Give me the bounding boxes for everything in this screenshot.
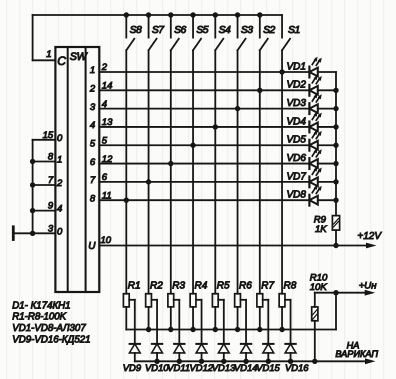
svg-text:VD1-VD8-АЛ307: VD1-VD8-АЛ307 (12, 323, 86, 334)
node: left bus junction y=185 (30, 182, 35, 187)
svg-text:S7: S7 (152, 25, 165, 36)
svg-text:C: C (57, 54, 66, 68)
wire: branch to diode VD14 (240, 300, 246, 344)
wire: +Un line (315, 292, 366, 294)
wire: R6 bottom lead (237, 307, 239, 330)
wire: R10 to varicap bus (314, 321, 316, 362)
wire: IC output row 6 (pin 12) to LED VD6 (99, 163, 309, 165)
svg-text:4: 4 (102, 99, 107, 110)
node: matrix junction row 1 / column S1 (279, 69, 284, 74)
svg-text:+12V: +12V (357, 231, 382, 242)
svg-text:11: 11 (102, 190, 112, 201)
svg-text:VD16: VD16 (285, 362, 309, 373)
wire: branch to diode VD11 (174, 300, 180, 344)
wire: IC output row 8 (pin 11) to LED VD8 (99, 199, 309, 201)
terminal bar (common) (12, 227, 15, 240)
node: matrix junction row 4 / column S4 (213, 124, 218, 129)
wire: R7 bottom lead (259, 307, 261, 330)
switch S3 (235, 12, 253, 50)
wire: IC output row 5 (pin 5) to LED VD5 (99, 144, 309, 146)
wire: pin 1 (C input) up to switch common bus (33, 15, 282, 60)
svg-text:VD13: VD13 (212, 362, 236, 373)
svg-text:4: 4 (57, 204, 62, 215)
svg-text:2: 2 (101, 62, 108, 73)
node: matrix junction row 6 / column S6 (168, 161, 173, 166)
node: R6 on +Un bus (235, 327, 240, 332)
switch S4 (213, 12, 231, 50)
wire: IC output row 2 (pin 14) to LED VD2 (99, 89, 309, 91)
svg-text:8: 8 (48, 152, 54, 163)
svg-text:VD11: VD11 (167, 362, 190, 373)
node: VD10 on varicap bus (154, 359, 159, 364)
svg-text:8: 8 (90, 193, 96, 204)
svg-text:VD15: VD15 (256, 362, 280, 373)
wire: R5 bottom lead (214, 307, 216, 330)
svg-text:ВАРИКАП: ВАРИКАП (335, 349, 378, 359)
node: matrix junction row 7 / column S7 (146, 179, 151, 184)
node: R9 junction on +12V line (333, 243, 338, 248)
wire: IC output row 7 (pin 6) to LED VD7 (99, 181, 309, 183)
resistor R10 (312, 293, 318, 321)
svg-text:R8: R8 (284, 281, 297, 292)
wire: column S4 down to R5 (214, 50, 216, 293)
LED VD4 (309, 113, 336, 132)
node: R7 on +Un bus (257, 327, 262, 332)
node: R2 on +Un bus (146, 327, 151, 332)
diode VD11 (174, 344, 185, 361)
svg-text:5: 5 (90, 138, 96, 149)
switch S6 (168, 12, 186, 50)
svg-text:D1- К174КН1: D1- К174КН1 (12, 300, 70, 311)
wire: IC output row 3 (pin 4) to LED VD3 (99, 108, 309, 110)
node: VD12 on varicap bus (199, 359, 204, 364)
svg-text:2: 2 (56, 178, 63, 189)
svg-text:R1: R1 (128, 281, 141, 292)
svg-text:R7: R7 (261, 281, 274, 292)
svg-text:5: 5 (102, 135, 108, 146)
LED VD6 (309, 150, 336, 169)
diode VD16 (285, 344, 296, 361)
wire: LED cathode bus to R9 (335, 72, 337, 216)
node: R10 on varicap bus (312, 359, 317, 364)
svg-text:VD4: VD4 (287, 116, 307, 127)
wire: R4 bottom lead (192, 307, 194, 330)
node: VD14 on varicap bus (243, 359, 248, 364)
resistor R8 (279, 294, 285, 307)
wire: R8 bottom lead (281, 307, 283, 330)
svg-text:VD9: VD9 (123, 362, 142, 373)
svg-text:12: 12 (102, 154, 113, 165)
svg-text:R3: R3 (172, 281, 185, 292)
svg-text:6: 6 (102, 172, 108, 183)
node: left bus to pin 3 (30, 231, 35, 236)
wire: R1 bottom lead (125, 307, 127, 330)
svg-text:VD2: VD2 (287, 80, 307, 91)
node: VD11 on varicap bus (177, 359, 182, 364)
wire: left input pin 7 (address 2) (33, 184, 56, 186)
svg-text:7: 7 (90, 175, 96, 186)
diode VD14 (241, 344, 252, 361)
svg-text:0: 0 (57, 226, 63, 237)
wire: branch to diode VD16 (285, 300, 291, 344)
svg-text:S2: S2 (263, 25, 275, 36)
svg-text:R1-R8-100K: R1-R8-100K (12, 312, 66, 323)
svg-text:VD14: VD14 (234, 362, 257, 373)
LED VD3 (309, 95, 336, 114)
+Un arrow (365, 290, 376, 296)
LED VD8 (309, 186, 336, 205)
value label: parts list (12, 300, 90, 345)
svg-text:2: 2 (89, 84, 96, 95)
svg-text:4: 4 (90, 120, 95, 131)
node: LED bus junction VD4 (333, 124, 338, 129)
node: matrix junction row 3 / column S3 (235, 106, 240, 111)
svg-text:+Uн: +Uн (359, 281, 378, 292)
svg-text:1: 1 (90, 65, 95, 76)
resistor R4 (190, 294, 196, 307)
wire: IC output row 1 (pin 2) to LED VD1 (99, 71, 309, 73)
svg-text:R6: R6 (239, 281, 252, 292)
op-amp-style IC U1 (D1 K174KN1 switch) body (55, 47, 99, 292)
diode VD12 (196, 344, 207, 361)
LED VD2 (309, 77, 336, 96)
+12V arrow (366, 243, 377, 249)
svg-text:R2: R2 (150, 281, 163, 292)
svg-text:S6: S6 (174, 25, 186, 36)
node: VD15 on varicap bus (266, 359, 271, 364)
svg-text:10: 10 (101, 235, 112, 246)
svg-text:15: 15 (43, 130, 54, 141)
svg-text:0: 0 (57, 133, 63, 144)
svg-text:7: 7 (48, 175, 54, 186)
resistor R3 (168, 294, 174, 307)
switch S8 (124, 12, 142, 50)
wire: R9 to +12V line (335, 230, 337, 245)
svg-text:S5: S5 (196, 25, 208, 36)
node: matrix junction row 8 / column S8 (124, 197, 129, 202)
svg-text:VD7: VD7 (287, 171, 307, 182)
node: VD13 on varicap bus (221, 359, 226, 364)
LED VD1 (309, 58, 336, 77)
wire: branch to diode VD13 (218, 300, 224, 344)
svg-text:VD8: VD8 (287, 190, 307, 201)
svg-text:14: 14 (102, 81, 113, 92)
node: LED bus junction VD5 (333, 143, 338, 148)
resistor R6 (235, 294, 241, 307)
wire: column S2 down to R7 (259, 50, 261, 293)
node: R5 on +Un bus (213, 327, 218, 332)
wire: column S5 down to R4 (192, 50, 194, 293)
wire: column S7 down to R2 (148, 50, 150, 293)
resistor R7 (257, 294, 263, 307)
node: matrix junction row 2 / column S2 (257, 88, 262, 93)
wire: column S8 down to R1 (125, 50, 127, 293)
node: LED bus junction VD7 (333, 179, 338, 184)
resistor R9 (332, 216, 339, 231)
svg-text:VD3: VD3 (287, 98, 307, 109)
svg-text:S8: S8 (130, 25, 142, 36)
svg-text:VD9-VD16-КД521: VD9-VD16-КД521 (12, 334, 90, 345)
wire: left address bus (32, 140, 34, 234)
resistor R2 (146, 294, 152, 307)
wire: varicap bus (135, 360, 366, 362)
node: matrix junction row 5 / column S5 (190, 143, 195, 148)
wire: left input pin 8 (address 1) (33, 161, 56, 163)
wire: branch to diode VD15 (263, 300, 269, 344)
wire: left input pin 9 (address 4) (33, 210, 56, 212)
svg-text:3: 3 (48, 223, 54, 234)
svg-text:13: 13 (102, 117, 113, 128)
diode VD10 (152, 344, 163, 361)
switch S7 (146, 12, 165, 50)
switch S1 (282, 15, 300, 50)
node: LED bus junction VD3 (333, 106, 338, 111)
wire: branch to diode VD9 (129, 300, 135, 344)
wire: R2 bottom lead (148, 307, 150, 330)
resistor R1 (123, 294, 129, 307)
svg-text:SW: SW (70, 51, 89, 63)
switch S2 (257, 12, 275, 50)
wire: column S6 down to R3 (170, 50, 172, 293)
node: LED bus junction VD2 (333, 88, 338, 93)
wire: left input pin 15 (address 0) (33, 139, 56, 141)
svg-text:10K: 10K (310, 282, 328, 293)
svg-text:VD5: VD5 (287, 135, 307, 146)
wire: column S1 down to R8 (281, 50, 283, 293)
node: LED bus junction VD8 (333, 197, 338, 202)
diode VD9 (129, 344, 140, 361)
svg-text:R5: R5 (217, 281, 230, 292)
svg-text:9: 9 (48, 201, 54, 212)
svg-text:R4: R4 (195, 281, 208, 292)
node: R4 on +Un bus (190, 327, 195, 332)
diode VD13 (218, 344, 229, 361)
svg-text:1K: 1K (315, 224, 327, 235)
svg-text:S1: S1 (288, 25, 300, 36)
svg-text:VD12: VD12 (190, 362, 214, 373)
svg-text:VD10: VD10 (145, 362, 169, 373)
wire: U pin 10 line to +12V (99, 245, 367, 247)
svg-text:VD1: VD1 (287, 61, 306, 72)
svg-text:3: 3 (90, 102, 96, 113)
wire: left input pin 3 (address 0) (13, 232, 55, 234)
node: left bus junction y=161.5 (30, 159, 35, 164)
node: VD16 on varicap bus (288, 359, 293, 364)
node: left bus junction y=210.6 (30, 208, 35, 213)
LED VD5 (309, 131, 336, 150)
svg-text:U: U (88, 241, 96, 252)
diode VD15 (263, 344, 274, 361)
svg-text:6: 6 (90, 157, 96, 168)
wire: R3 bottom lead (170, 307, 172, 330)
node: riser on +Un line (333, 290, 338, 295)
svg-text:VD6: VD6 (287, 153, 307, 164)
node: R8 on +Un bus (279, 327, 284, 332)
node: R3 on +Un bus (168, 327, 173, 332)
switch S5 (190, 12, 208, 50)
svg-text:1: 1 (46, 49, 51, 60)
wire: column S3 down to R6 (237, 50, 239, 293)
wire: branch to diode VD10 (151, 300, 157, 344)
wire: branch to diode VD12 (196, 300, 202, 344)
svg-text:S3: S3 (241, 25, 253, 36)
node: LED bus junction VD6 (333, 161, 338, 166)
wire: R1-R8 common bus to +Un (126, 293, 336, 330)
svg-text:1: 1 (57, 155, 62, 166)
svg-text:S4: S4 (219, 25, 231, 36)
resistor R5 (212, 294, 218, 307)
LED VD7 (309, 168, 336, 187)
varicap arrow (365, 358, 376, 364)
wire: IC output row 4 (pin 13) to LED VD4 (99, 126, 309, 128)
